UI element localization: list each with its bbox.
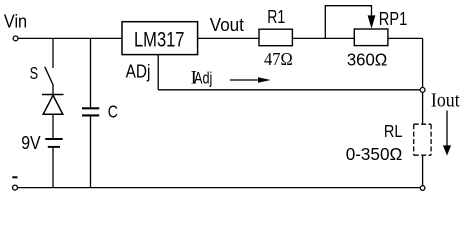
svg-text:Adj: Adj xyxy=(194,68,212,87)
svg-text:Vout: Vout xyxy=(210,14,244,35)
svg-text:Vin: Vin xyxy=(4,11,27,32)
svg-text:R1: R1 xyxy=(267,6,285,27)
svg-text:360Ω: 360Ω xyxy=(347,49,387,69)
svg-text:S: S xyxy=(30,63,38,83)
svg-text:0-350Ω: 0-350Ω xyxy=(346,144,403,164)
svg-text:LM317: LM317 xyxy=(134,26,185,51)
svg-text:ADj: ADj xyxy=(126,62,151,82)
svg-text:47Ω: 47Ω xyxy=(264,49,293,69)
svg-text:RL: RL xyxy=(384,121,403,141)
svg-text:9V: 9V xyxy=(21,132,41,153)
svg-text:C: C xyxy=(108,102,118,122)
svg-text:Iout: Iout xyxy=(431,90,460,111)
svg-text:RP1: RP1 xyxy=(379,8,407,29)
